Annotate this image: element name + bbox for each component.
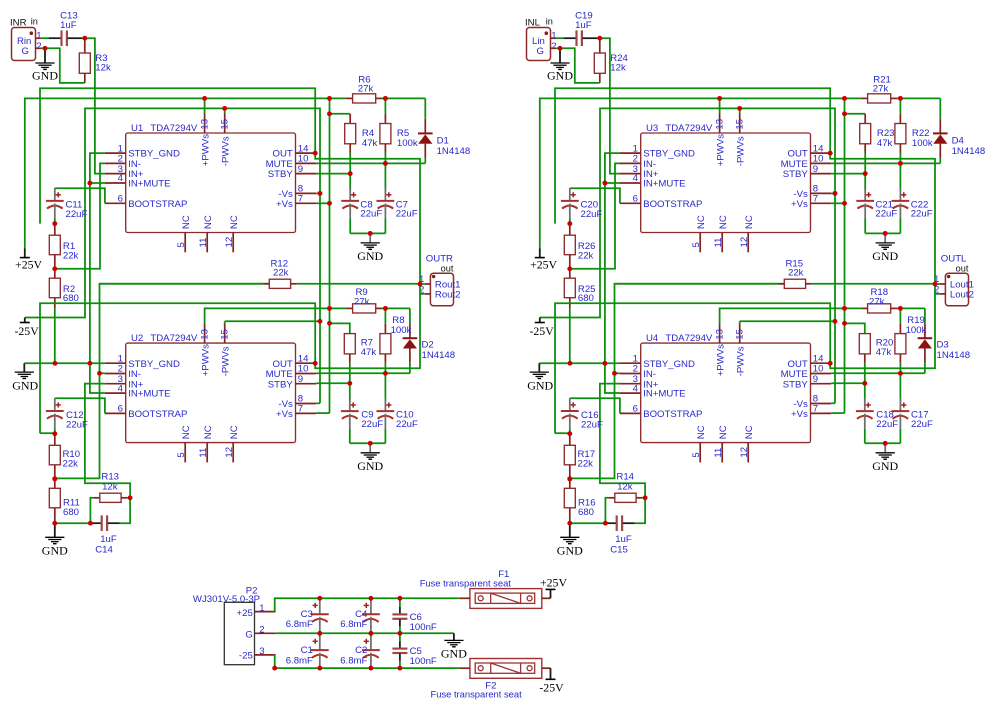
svg-text:15: 15	[220, 119, 231, 130]
svg-text:NC: NC	[696, 425, 707, 439]
svg-text:680: 680	[63, 293, 79, 304]
svg-text:+PWVs: +PWVs	[715, 134, 726, 166]
svg-text:GND: GND	[527, 378, 553, 392]
svg-text:22uF: 22uF	[361, 419, 383, 430]
svg-text:15: 15	[735, 119, 746, 130]
svg-text:1uF: 1uF	[60, 20, 77, 31]
svg-text:STBY: STBY	[783, 169, 809, 180]
svg-text:BOOTSTRAP: BOOTSTRAP	[643, 199, 702, 210]
svg-text:12: 12	[739, 237, 750, 248]
svg-text:GND: GND	[357, 459, 383, 473]
svg-text:22uF: 22uF	[396, 209, 418, 220]
svg-text:TDA7294V: TDA7294V	[150, 333, 198, 344]
svg-text:IN+MUTE: IN+MUTE	[643, 389, 685, 400]
svg-text:GND: GND	[557, 543, 583, 557]
svg-text:NC: NC	[718, 215, 729, 229]
svg-text:+PWVs: +PWVs	[715, 344, 726, 376]
svg-text:100nF: 100nF	[410, 656, 437, 667]
svg-text:GND: GND	[872, 459, 898, 473]
svg-text:12k: 12k	[102, 482, 118, 493]
svg-text:BOOTSTRAP: BOOTSTRAP	[128, 409, 187, 420]
svg-text:27k: 27k	[358, 84, 374, 95]
svg-text:6.8mF: 6.8mF	[340, 619, 367, 630]
svg-text:13: 13	[200, 329, 211, 340]
svg-text:13: 13	[715, 329, 726, 340]
svg-text:11: 11	[198, 448, 209, 458]
svg-text:15: 15	[735, 329, 746, 340]
svg-text:1N4148: 1N4148	[937, 350, 971, 361]
svg-text:-PWVs: -PWVs	[736, 136, 747, 166]
svg-text:NC: NC	[229, 425, 240, 439]
svg-text:4: 4	[633, 383, 639, 394]
svg-text:+Vs: +Vs	[791, 409, 808, 420]
svg-text:G: G	[22, 46, 29, 57]
svg-text:22uF: 22uF	[581, 209, 603, 220]
svg-text:D3: D3	[937, 339, 949, 350]
svg-text:-25V: -25V	[529, 324, 554, 338]
svg-text:22k: 22k	[63, 458, 79, 469]
svg-text:22uF: 22uF	[876, 419, 898, 430]
svg-text:C14: C14	[95, 544, 113, 555]
svg-text:1N4148: 1N4148	[422, 350, 456, 361]
svg-text:6: 6	[118, 404, 123, 415]
svg-text:12: 12	[739, 447, 750, 458]
svg-text:WJ301V-5.0-3P: WJ301V-5.0-3P	[193, 594, 260, 605]
svg-text:C15: C15	[610, 544, 628, 555]
svg-text:GND: GND	[441, 646, 467, 660]
svg-text:22k: 22k	[578, 251, 594, 262]
svg-text:9: 9	[298, 374, 303, 385]
svg-text:5: 5	[176, 242, 187, 247]
svg-text:NC: NC	[718, 425, 729, 439]
svg-text:+25V: +25V	[530, 258, 557, 272]
svg-text:-PWVs: -PWVs	[736, 346, 747, 376]
svg-text:IN+MUTE: IN+MUTE	[128, 179, 170, 190]
svg-text:2: 2	[551, 41, 556, 52]
svg-text:-25: -25	[239, 650, 253, 661]
svg-text:47k: 47k	[877, 138, 893, 149]
svg-text:Fuse transparent seat: Fuse transparent seat	[431, 689, 523, 700]
svg-text:22k: 22k	[273, 268, 289, 279]
svg-text:11: 11	[713, 238, 724, 248]
svg-text:NC: NC	[203, 215, 214, 229]
svg-text:+25: +25	[237, 608, 253, 619]
svg-text:IN+MUTE: IN+MUTE	[643, 179, 685, 190]
svg-text:U2: U2	[131, 333, 143, 344]
svg-text:TDA7294V: TDA7294V	[665, 123, 713, 134]
svg-text:27k: 27k	[873, 84, 889, 95]
svg-text:STBY: STBY	[783, 379, 809, 390]
svg-text:15: 15	[220, 329, 231, 340]
svg-text:22uF: 22uF	[911, 419, 933, 430]
svg-text:4: 4	[633, 173, 639, 184]
svg-text:680: 680	[578, 507, 594, 518]
svg-text:U4: U4	[646, 333, 659, 344]
svg-text:22uF: 22uF	[911, 209, 933, 220]
svg-text:Lout2: Lout2	[950, 289, 974, 300]
svg-text:-PWVs: -PWVs	[221, 136, 232, 166]
svg-text:5: 5	[691, 452, 702, 457]
svg-text:5: 5	[691, 242, 702, 247]
svg-text:6.8mF: 6.8mF	[340, 655, 367, 666]
svg-text:22uF: 22uF	[360, 209, 382, 220]
svg-text:NC: NC	[229, 215, 240, 229]
svg-text:22k: 22k	[63, 251, 79, 262]
svg-text:4: 4	[118, 173, 124, 184]
svg-text:in: in	[546, 16, 553, 26]
svg-text:+Vs: +Vs	[276, 409, 293, 420]
svg-text:out: out	[956, 263, 969, 273]
svg-text:6.8mF: 6.8mF	[286, 619, 313, 630]
svg-text:12: 12	[224, 237, 235, 248]
svg-text:1N4148: 1N4148	[437, 146, 471, 157]
svg-text:22uF: 22uF	[581, 420, 603, 431]
svg-text:D1: D1	[437, 136, 449, 147]
svg-text:INR: INR	[10, 18, 27, 29]
svg-text:-25V: -25V	[14, 324, 39, 338]
svg-text:GND: GND	[547, 68, 573, 82]
svg-text:12k: 12k	[617, 482, 633, 493]
svg-text:9: 9	[813, 164, 818, 175]
svg-text:22uF: 22uF	[875, 209, 897, 220]
svg-text:IN+MUTE: IN+MUTE	[128, 389, 170, 400]
svg-text:100k: 100k	[906, 325, 927, 336]
svg-text:12k: 12k	[95, 63, 111, 74]
svg-text:100k: 100k	[397, 138, 418, 149]
svg-text:NC: NC	[744, 425, 755, 439]
svg-text:GND: GND	[12, 378, 38, 392]
svg-text:22uF: 22uF	[66, 420, 88, 431]
svg-text:13: 13	[200, 119, 211, 130]
svg-text:D2: D2	[422, 339, 434, 350]
svg-text:6: 6	[633, 194, 638, 205]
svg-text:13: 13	[715, 119, 726, 130]
svg-text:22k: 22k	[578, 458, 594, 469]
svg-text:Rout2: Rout2	[435, 289, 461, 300]
svg-text:G: G	[537, 46, 544, 57]
svg-text:U3: U3	[646, 123, 658, 134]
svg-text:9: 9	[813, 374, 818, 385]
svg-text:12k: 12k	[610, 63, 626, 74]
svg-text:U1: U1	[131, 123, 143, 134]
svg-text:6.8mF: 6.8mF	[286, 655, 313, 666]
svg-text:680: 680	[578, 293, 594, 304]
svg-text:12: 12	[224, 447, 235, 458]
svg-text:100k: 100k	[912, 138, 933, 149]
svg-text:NC: NC	[203, 425, 214, 439]
svg-text:INL: INL	[525, 18, 541, 29]
svg-text:6: 6	[633, 404, 638, 415]
svg-text:NC: NC	[696, 215, 707, 229]
svg-text:STBY: STBY	[268, 379, 294, 390]
svg-text:GND: GND	[42, 543, 68, 557]
svg-text:7: 7	[813, 404, 818, 415]
svg-text:GND: GND	[357, 249, 383, 263]
svg-text:+25V: +25V	[540, 575, 567, 589]
svg-text:100k: 100k	[391, 325, 412, 336]
svg-text:BOOTSTRAP: BOOTSTRAP	[128, 199, 187, 210]
svg-text:out: out	[441, 263, 454, 273]
svg-text:22k: 22k	[788, 268, 804, 279]
svg-text:TDA7294V: TDA7294V	[665, 333, 713, 344]
svg-text:1uF: 1uF	[575, 20, 592, 31]
svg-text:+Vs: +Vs	[276, 199, 293, 210]
svg-text:7: 7	[298, 404, 303, 415]
svg-text:BOOTSTRAP: BOOTSTRAP	[643, 409, 702, 420]
svg-text:NC: NC	[181, 215, 192, 229]
svg-text:4: 4	[118, 383, 124, 394]
svg-text:47k: 47k	[361, 347, 377, 358]
svg-text:27k: 27k	[869, 297, 885, 308]
svg-text:in: in	[31, 16, 38, 26]
svg-text:47k: 47k	[876, 347, 892, 358]
svg-text:GND: GND	[872, 249, 898, 263]
svg-text:27k: 27k	[354, 297, 370, 308]
svg-text:-PWVs: -PWVs	[221, 346, 232, 376]
svg-text:G: G	[245, 630, 252, 641]
svg-text:680: 680	[63, 507, 79, 518]
svg-text:D4: D4	[952, 136, 965, 147]
svg-text:100nF: 100nF	[410, 622, 437, 633]
svg-text:+25V: +25V	[15, 258, 42, 272]
svg-text:7: 7	[298, 194, 303, 205]
svg-text:7: 7	[813, 194, 818, 205]
svg-text:GND: GND	[32, 68, 58, 82]
svg-text:6: 6	[118, 194, 123, 205]
svg-text:9: 9	[298, 164, 303, 175]
svg-text:47k: 47k	[362, 138, 378, 149]
svg-text:11: 11	[713, 448, 724, 458]
svg-text:22uF: 22uF	[66, 209, 88, 220]
svg-text:+PWVs: +PWVs	[200, 134, 211, 166]
svg-text:-25V: -25V	[539, 681, 564, 695]
svg-text:11: 11	[198, 238, 209, 248]
svg-text:NC: NC	[181, 425, 192, 439]
svg-text:Fuse transparent seat: Fuse transparent seat	[420, 578, 512, 589]
svg-text:22uF: 22uF	[396, 419, 418, 430]
svg-text:2: 2	[36, 41, 41, 52]
svg-text:STBY: STBY	[268, 169, 294, 180]
svg-text:TDA7294V: TDA7294V	[150, 123, 198, 134]
svg-text:+Vs: +Vs	[791, 199, 808, 210]
svg-text:5: 5	[176, 452, 187, 457]
svg-text:NC: NC	[744, 215, 755, 229]
svg-text:+PWVs: +PWVs	[200, 344, 211, 376]
svg-text:1N4148: 1N4148	[952, 146, 986, 157]
